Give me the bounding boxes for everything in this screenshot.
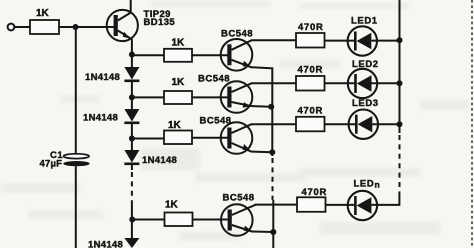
svg-text:1K: 1K: [168, 120, 182, 131]
svg-text:LED2: LED2: [352, 59, 379, 70]
wire R6 to LED1: [325, 40, 357, 42]
resistor R3 1K: [164, 91, 192, 104]
resistor R5 1K: [165, 213, 193, 227]
svg-text:1N4148: 1N4148: [83, 113, 118, 124]
svg-text:47µF: 47µF: [40, 159, 63, 170]
emitter bus dashed middle: [272, 158, 274, 200]
svg-text:LED: LED: [354, 178, 375, 189]
node bus-3 junction: [269, 149, 275, 155]
svg-text:BD135: BD135: [144, 17, 176, 28]
wire Q3 collector row to R7: [251, 82, 296, 84]
wire D3 stub: [131, 165, 133, 170]
svg-text:1K: 1K: [165, 200, 179, 211]
wire node C to D2: [131, 97, 133, 109]
wire D1 to node C: [131, 82, 133, 97]
emitter bus solid upper: [271, 68, 273, 156]
wire node A down to C1: [75, 27, 77, 154]
wire LED1 to rail: [371, 40, 399, 42]
capacitor C1 47uF: [40, 150, 90, 170]
node rail-1 junction: [397, 37, 403, 43]
transistor Q3 BC548: [198, 73, 252, 112]
svg-text:470R: 470R: [302, 187, 328, 198]
svg-text:470R: 470R: [298, 106, 324, 117]
svg-text:1N4148: 1N4148: [85, 72, 120, 83]
wire LED3 to rail: [372, 123, 399, 125]
wire Q5 emitter to bus: [252, 231, 274, 234]
LED3: [349, 98, 379, 139]
node E junction: [129, 217, 135, 223]
resistor R8 470R: [296, 117, 325, 132]
wire LED2 to rail: [372, 82, 400, 84]
svg-text:1K: 1K: [172, 77, 186, 88]
svg-text:1N4148: 1N4148: [142, 155, 177, 166]
node rail-2 junction: [397, 80, 403, 86]
resistor R1 1K: [30, 20, 59, 34]
wire node B to R2: [132, 54, 164, 56]
wire R3 to Q3 base: [192, 96, 228, 98]
wire Q2 collector row to R6: [251, 39, 296, 41]
wire Q4 emitter to bus: [251, 151, 273, 154]
node A junction: [73, 24, 79, 30]
node bus-2 junction: [268, 104, 274, 110]
diode D4 1N4148: [88, 238, 139, 248]
wire Q1 collector to top edge: [130, 0, 132, 13]
transistor Q4 BC548: [200, 115, 253, 154]
resistor R2 1K: [164, 49, 192, 62]
wire node D to D3: [131, 139, 133, 151]
wire node D to R4: [132, 138, 164, 140]
node C junction: [129, 94, 135, 100]
svg-text:n: n: [375, 179, 380, 189]
wire dashed continuation of chain: [131, 172, 133, 204]
wire R1 to Q1 base: [59, 26, 114, 28]
svg-text:1K: 1K: [36, 8, 50, 19]
wire node E to R5: [132, 219, 165, 221]
node bus-4 junction: [270, 229, 276, 235]
wire LEDn to rail corner: [371, 204, 399, 206]
wire chain to node E: [131, 204, 133, 239]
resistor R6 470R: [296, 33, 325, 48]
svg-text:LED3: LED3: [352, 98, 379, 109]
wire Q1 emitter down: [131, 39, 133, 55]
svg-text:1K: 1K: [172, 38, 186, 49]
resistor R4 1K: [164, 131, 192, 145]
wire C1 down to bottom edge: [75, 166, 77, 248]
node D junction: [129, 136, 135, 142]
svg-text:470R: 470R: [298, 65, 324, 76]
LED n: [348, 178, 380, 220]
wire Q2 emitter to bus corner: [251, 67, 271, 68]
wire D2 to node D: [131, 124, 133, 139]
supply rail dashed middle: [399, 135, 401, 192]
diode D2 1N4148: [83, 109, 139, 124]
svg-text:470R: 470R: [298, 22, 324, 33]
wire R7 to LED2: [325, 82, 357, 84]
diode D3 1N4148: [124, 150, 177, 166]
svg-text:BC548: BC548: [200, 115, 232, 126]
svg-text:1N4148: 1N4148: [88, 240, 123, 248]
resistor R7 470R: [296, 76, 325, 91]
wire R4 to Q4 base: [192, 137, 228, 139]
wire R9 to LEDn: [326, 204, 357, 206]
transistor Q5 BC548: [221, 193, 256, 236]
supply rail solid upper: [399, 0, 401, 133]
LED1: [348, 16, 378, 56]
node B junction (emitter / diode chain): [129, 52, 135, 58]
input terminal: [8, 24, 15, 31]
wire node B to D1: [131, 55, 133, 68]
wire R8 to LED3: [325, 123, 358, 125]
wire node C to R3: [132, 96, 164, 98]
svg-text:BC548: BC548: [198, 73, 230, 84]
resistor R9 470R: [297, 197, 326, 212]
svg-text:BC548: BC548: [221, 28, 253, 39]
transistor Q2 BC548: [221, 28, 253, 70]
emitter bus solid lower to bottom edge: [272, 200, 274, 248]
LED2: [348, 59, 379, 98]
wire terminal to R1: [14, 26, 30, 28]
svg-text:LED1: LED1: [351, 16, 378, 27]
page edge dotted rule: [471, 0, 473, 248]
svg-text:BC548: BC548: [223, 193, 255, 204]
node rail-3 junction: [397, 121, 403, 127]
wire R2 to Q2 base: [192, 54, 228, 56]
wire Q5 collector row to R9: [255, 204, 297, 206]
diode D1 1N4148: [85, 67, 139, 83]
supply rail solid lower: [398, 192, 400, 206]
wire Q4 collector row to R8: [251, 123, 296, 125]
wire R5 to Q5 base: [193, 219, 228, 221]
wire Q3 emitter to bus: [251, 105, 272, 108]
transistor Q1 TIP29/BD135: [107, 9, 176, 41]
